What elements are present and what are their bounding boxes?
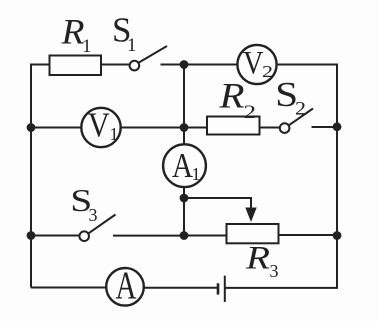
wire center node to R2: [184, 127, 207, 129]
wire battery to bottom right corner: [225, 287, 338, 289]
wire top node to V2: [184, 64, 238, 66]
svg-text:2: 2: [262, 62, 273, 81]
svg-text:3: 3: [89, 205, 98, 225]
switch S3: [79, 215, 115, 242]
wire A to battery: [144, 287, 218, 289]
wire V1 to center node: [121, 127, 184, 129]
node row2 right: [333, 122, 342, 131]
wire S3 to row3 center node: [113, 235, 184, 237]
ammeter A1: [163, 144, 206, 187]
svg-text:R: R: [245, 241, 270, 277]
battery cell: [218, 276, 225, 302]
node row2 center: [180, 123, 189, 132]
wire R1 to S1: [101, 64, 130, 66]
wire wiper node down to row3 node: [183, 198, 185, 236]
wire top segment corner to R1: [30, 64, 50, 66]
wire row2 left junction to V1: [31, 127, 81, 129]
wire center vertical top node to row2 node: [183, 65, 185, 128]
wire row3 left junction to S3: [31, 235, 80, 237]
svg-text:V: V: [243, 45, 264, 81]
switch S2: [280, 109, 313, 133]
switch S1: [130, 46, 167, 70]
wire R2 to S2: [260, 127, 281, 129]
node top center: [180, 60, 189, 69]
wire bottom left corner to ammeter A: [31, 287, 107, 289]
node wiper junction: [180, 194, 189, 203]
svg-text:1: 1: [192, 164, 201, 184]
svg-text:A: A: [172, 146, 194, 185]
wire left vertical: [30, 65, 32, 288]
svg-text:V: V: [88, 106, 110, 145]
svg-text:3: 3: [270, 261, 279, 281]
rheostat R3: [227, 224, 279, 243]
node row3 right: [333, 231, 342, 240]
wire S2 to row2 right node: [312, 126, 338, 128]
ammeter A: [106, 268, 144, 306]
wire V2 to top right corner: [277, 64, 338, 66]
wire row3 node to R3: [184, 235, 227, 237]
wire R3 to row3 right node: [279, 234, 338, 236]
svg-text:2: 2: [244, 102, 257, 123]
wire S1 to top node: [161, 64, 185, 66]
wire row2 node down to A1: [183, 128, 185, 145]
node row2 left: [27, 123, 36, 132]
rheostat wiper arrow: [245, 197, 256, 222]
resistor R2: [207, 117, 260, 135]
svg-text:R: R: [60, 11, 84, 51]
node row3 left: [27, 231, 36, 240]
svg-text:1: 1: [110, 124, 119, 144]
voltmeter V2: [237, 45, 276, 84]
node row3 center: [180, 231, 189, 240]
svg-text:A: A: [116, 264, 137, 307]
svg-text:1: 1: [127, 35, 137, 56]
svg-text:2: 2: [295, 99, 306, 120]
resistor R1: [50, 56, 102, 76]
svg-text:1: 1: [82, 36, 92, 57]
svg-text:R: R: [218, 76, 244, 116]
wire wiper horizontal to arrow: [184, 197, 251, 199]
wire A1 to wiper node: [183, 187, 185, 198]
wire right vertical: [336, 65, 338, 288]
voltmeter V1: [81, 108, 120, 147]
